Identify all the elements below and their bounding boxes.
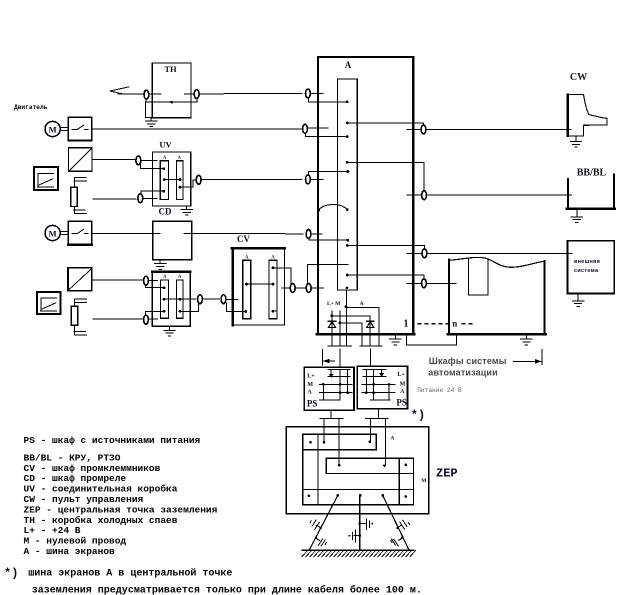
cable gland CV entry [221,295,226,304]
PS2 internal wiring [362,369,395,400]
svg-text:А: А [307,390,312,396]
junction dot UV2 bar1 mid [163,298,166,301]
svg-text:М: М [400,381,406,387]
dimension terminal right [541,350,543,365]
junction dots PS2 [365,391,368,394]
wire W2 to box UV2 [92,279,143,281]
svg-text:BB/BL: BB/BL [577,168,607,179]
junction dot bus BB tap [346,161,349,164]
UV shield rise bottom to bar1 [140,191,142,194]
cabinet n inner box [468,258,488,295]
RTD resistor R2 top terminals [75,298,87,300]
wire stub inside CD [159,233,160,235]
wire stub UV bottom entry [143,197,157,199]
converter box W1 (diagonal symbol) [69,148,93,172]
junction dot UV2 bar2 mid [179,298,182,301]
junction dot M link [339,321,342,324]
cabinet n bottom edge [448,333,546,336]
ground BB/BL [576,210,578,213]
bus tap wire to external system [347,245,424,249]
svg-text:А: А [177,156,181,161]
wire R1 row to box UV [93,198,136,200]
junction dot on TH shield link [170,101,173,104]
junction dot bus TH [346,100,349,103]
converter box W2 (diagonal symbol) [68,268,92,291]
junction dot arc end [346,208,349,211]
junction dot A-net branch [345,305,348,308]
svg-text:шина экранов А в центральной т: шина экранов А в центральной точке [28,568,232,580]
RTD resistor R1 top terminals [74,177,86,179]
shield rise CV to bus [308,264,349,283]
junction dot UV bar1 mid [163,178,166,181]
external system box [567,241,614,294]
box UV2 outline [152,271,190,326]
recorder P2 inner symbol [41,297,56,299]
svg-text:n: n [452,319,457,329]
svg-text:CV: CV [237,234,250,244]
diode V2 [366,321,374,327]
bus tap wire to CW [347,123,423,126]
svg-text:CW - пульт управления: CW - пульт управления [24,494,144,505]
switch box S1 [68,117,92,140]
cabinet n wavy top edge [449,257,544,267]
junction dot UV bar1 top [162,167,165,170]
wire A to CW console [407,129,571,131]
diode V1 [328,321,336,327]
svg-text:CD - шкаф промреле: CD - шкаф промреле [24,473,127,484]
cable gland A wall n exit [422,279,427,288]
bus tap wire to BB/BL [347,162,424,191]
svg-text:1: 1 [404,318,409,329]
cabinet n left edge [448,260,450,335]
svg-text:А: А [163,275,167,280]
junction dot UV2 bar1 lower [163,310,166,313]
PS2 drop wires to ZEP [369,418,371,441]
svg-text:система: система [574,268,599,274]
svg-text:А: А [245,255,249,260]
switch S1 contact symbol [72,128,77,130]
svg-text:PS - шкаф с источниками питани: PS - шкаф с источниками питания [24,435,201,446]
svg-text:Двигатель: Двигатель [14,104,48,111]
svg-text:*): *) [4,567,18,581]
dashes after n [462,323,465,325]
svg-text:внешняя: внешняя [574,259,600,265]
junction dot UV bar1 bottom [162,190,165,193]
UV shield drop top to bar1 [140,164,142,169]
link symbols on middle conductor [349,519,374,542]
svg-text:ZEP: ZEP [436,467,458,481]
svg-text:ZEP - центральная точка заземл: ZEP - центральная точка заземления [24,504,218,515]
svg-text:Шкафы системы: Шкафы системы [429,356,507,366]
thermocouple symbol [110,87,129,91]
svg-text:А: А [360,301,364,307]
CV entry drop wire to bar1 [227,303,246,312]
wire stub UV2 top entry [149,280,158,282]
junction dot bus M1 [346,135,349,138]
wire stub inside TH right [185,93,194,95]
screen bus bar A [338,79,358,290]
ZEP top bus bar [303,434,377,449]
junction dot L+ link [330,314,333,317]
wire L+ drop [331,311,333,346]
M1 coupling double-line [61,126,68,128]
svg-text:CV - шкаф промклеммников: CV - шкаф промклеммников [24,463,161,474]
junction dot bus ext tap [346,244,349,247]
converter W1 diagonal [70,149,92,171]
junction dot UV bar2 mid [179,178,182,181]
svg-text:А: А [178,275,182,280]
RTD resistor R1 body [71,187,77,206]
recorder P1 inner symbol [38,173,53,175]
RTD resistor R2 body [71,306,77,325]
cable gland UV2 top-left [144,276,149,285]
ground external system [577,294,579,298]
cabinet n right edge [543,261,545,335]
motor M1 circle [45,121,60,136]
cable gland CV exit [290,284,295,293]
disconnect marks on left diagonal [310,520,327,546]
wire A to cabinet n [407,282,456,284]
wire A to external system [407,252,572,254]
wire stub through wall UV [311,178,324,180]
junction dot bus UV [347,170,350,173]
bus bottom drop wire A-net [346,290,348,346]
svg-text:CD: CD [159,207,172,217]
junction dot bus bottom [346,287,349,290]
UV2 lower row wire [180,304,199,312]
svg-text:ТН - коробка холодных спаев: ТН - коробка холодных спаев [24,515,178,526]
svg-text:*): *) [411,409,425,423]
wire UV2 to CV gland [203,298,220,300]
svg-text:А: А [390,435,394,441]
shield rise UV to bus [308,172,347,176]
link wire L+ to diode V2 [332,316,370,346]
junction dot CV bar1 lower [244,310,247,313]
wire CD to cabinet A [184,233,303,235]
box CD outline [153,221,192,260]
wire W1 to box UV [92,159,136,161]
UV bar2 lower out wire [180,180,196,187]
converter W2 diagonal [69,269,92,290]
wire between CV glands [296,287,306,289]
cable gland A wall UV entry [306,175,311,184]
cable gland A wall ext exit [422,249,427,258]
wire TH to cabinet A [200,93,302,95]
svg-text:А: А [271,255,275,260]
svg-text:М: М [307,382,313,388]
recorder box P1 [34,167,58,190]
disconnect marks on right diagonal [391,520,410,546]
ground cabinet n [525,335,527,337]
junction dot CV bar2 lower [272,310,275,313]
RTD resistor R2 lead top [74,299,76,306]
dimension arrow left [323,360,335,362]
wire thermocouple to TH [118,93,144,95]
junction dot CV bar1 mid [245,283,248,286]
svg-text:PS: PS [396,397,407,407]
wire stub through wall CV [311,287,323,289]
UV terminal bar 2 [177,161,183,200]
RTD resistor R2 lead bottom [74,325,76,335]
ZEP bottom bus bar [303,490,414,505]
TH shield link wire [146,101,197,103]
wire stub through wall M1 [308,127,328,129]
PS1 cable bracket [320,417,343,419]
svg-text:L+: L+ [397,372,405,378]
cable gland TH right [194,90,199,99]
UV2 shield drop top to bar1 [144,285,146,287]
cable gland UV right [196,175,201,184]
wire S1 to cabinet A [92,128,302,130]
junction dot UV2 bar1 top [163,286,166,289]
wire stub through wall CD [311,233,322,235]
svg-text:UV: UV [159,139,172,149]
cable gland A wall TH entry [306,89,311,98]
cable bracket PS1 side [328,345,352,347]
earthing conductor middle [359,496,361,550]
cable gland A wall M1 entry [303,124,308,133]
UV terminal bar 1 [160,161,168,200]
shield drop CD to bus [309,238,348,240]
svg-text:L+ - +24 В: L+ - +24 В [24,525,81,536]
RTD resistor R1 bottom terminals [74,209,85,211]
wire stub UV2 bottom entry [149,318,158,320]
CV terminal bar 2 [269,260,277,319]
wire UV to cabinet A [202,179,303,181]
motor M2 circle [45,225,60,240]
RTD resistor R1 lead top [73,178,75,188]
svg-text:А: А [163,156,167,161]
svg-text:А: А [345,60,352,70]
cabinet A outline [318,57,413,335]
wire S2 to box CD [92,233,159,235]
svg-text:L+: L+ [307,373,315,379]
ground TH [146,118,157,127]
power supply box PS1 [304,367,354,410]
cable gland UV2 bottom-left [144,315,149,324]
RTD resistor R2 bottom terminals [74,330,85,332]
dashed row 1 ... n [418,323,449,325]
ground UV2 [169,325,171,328]
junction dot bus n tap [346,274,349,277]
svg-text:PS: PS [307,398,318,408]
UV2 terminal bar 1 [161,280,169,318]
cable gland TH left [144,90,149,99]
svg-text:Питание 24 В: Питание 24 В [417,387,462,394]
wire A to BB/BL [407,194,572,196]
cable gland A wall CV entry [306,284,311,293]
cable gland UV2 right [198,295,203,304]
CV bar1-bar2 mid link [247,283,274,285]
PS1 internal wiring [320,370,352,401]
junction dot CV bar2 top [272,266,275,269]
wire stub CV entry [226,299,238,301]
RTD resistor R1 lead bottom [73,206,75,213]
bond link cabinet 1 to cabinet n [407,336,457,345]
A-net branch wire [347,308,379,347]
link wire M branch [340,323,362,346]
svg-text:CW: CW [570,72,587,83]
PS1 drop wires to ZEP [323,418,325,441]
junction dot bus CD [346,239,349,242]
ZEP middle bus bar [326,458,413,473]
svg-text:L+ М: L+ М [327,301,341,307]
bus tap wire to cabinet n [347,275,424,279]
UV2 terminal bar 2 [177,280,184,318]
CV bar2 top out wire [273,268,291,284]
junction dot UV2 bar2 lower [179,310,182,313]
switch box S2 [68,221,92,245]
svg-text:М - нулевой провод: М - нулевой провод [24,536,127,547]
cable drop to PS1 [339,349,341,367]
spare screen arc jumper [319,204,348,210]
cable gland A wall CW exit [421,125,426,134]
UV2 mid out wire to gland [180,298,196,300]
cable bracket PS2 side [360,345,382,347]
svg-text:А: А [400,389,405,395]
console CW outline [567,95,607,136]
wire CV to gland pair [282,287,290,289]
cable gland UV top-left [136,156,141,165]
switch S2 contact symbol [72,233,77,235]
wire stub through wall TH [311,93,324,95]
svg-text:А - шина экранов: А - шина экранов [24,546,116,557]
svg-text:М: М [49,125,57,135]
ground CD [159,259,161,261]
cable gland A wall BB exit [422,191,427,200]
M2 coupling double-line [61,230,68,232]
earthing conductor right diagonal [383,495,409,550]
ground CW [575,136,577,138]
shield drop TH to bus [308,98,347,102]
power supply box PS2 [357,366,407,408]
svg-text:автоматизации: автоматизации [428,368,497,378]
cable gland A wall CD entry [306,230,311,239]
shield drop M1 to bus [305,133,347,137]
PS2 bottom cable [378,409,380,419]
earth hatching [302,551,416,557]
ZEP right bus bar [399,458,413,505]
ground cabinet A [394,335,396,337]
earth bar line [302,549,413,551]
cable drop to PS2 [369,349,371,366]
UV2 bar1-bar2 mid link [164,298,180,300]
box TH outline [152,63,191,118]
CV terminal bar 1 [243,260,251,319]
svg-text:М: М [49,229,57,239]
svg-text:BB/BL - КРУ, РТЗО: BB/BL - КРУ, РТЗО [24,452,121,463]
wire stub UV top entry [141,160,157,162]
cubicle BB/BL open-top outline [567,179,569,209]
wire stub inside cabinet n [449,282,456,284]
junction dot UV bar2 lower [179,186,182,189]
wire M drop [339,311,341,346]
wire R2 row to box UV2 [93,318,143,320]
cabinet A bottom edge emphasis [317,333,414,336]
junction dot bus CW tap [346,122,349,125]
recorder box P2 [37,292,61,314]
svg-text:заземления предусматривается т: заземления предусматривается только при … [32,584,422,595]
svg-text:М: М [421,478,427,484]
PS1 bottom cable [330,410,332,418]
UV bar1-bar2 mid link [164,179,180,181]
junction dots PS1 [322,383,325,386]
ZEP outer box [286,427,429,514]
dimension terminal left [321,349,323,365]
TH shield drop wire to ground [145,102,147,118]
ZEP junction dots [309,441,312,444]
junction dot CV bar2 mid [272,283,275,286]
cable gland UV bottom-left [138,194,143,203]
box UV outline [153,152,191,206]
box CV outline [233,248,285,325]
earthing conductor left diagonal [309,495,338,550]
dimension arrow right [514,360,542,362]
UV2 shield rise bottom to bar1 [146,311,164,315]
svg-text:UV - соединительная коробка: UV - соединительная коробка [24,484,178,495]
ZEP left bus bar [303,434,318,505]
svg-text:ТН: ТН [164,64,177,74]
PS2 cable bracket [366,417,388,419]
ground UV [186,205,188,207]
wire stub inside TH left [149,93,161,95]
